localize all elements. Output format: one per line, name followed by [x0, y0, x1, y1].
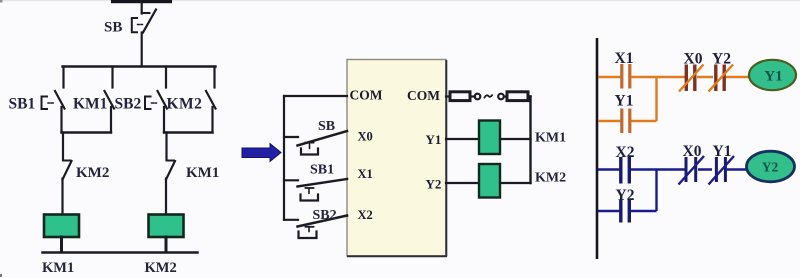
- wire below SB1: [60, 107, 62, 133]
- wire: [697, 76, 713, 79]
- svg-text:KM1: KM1: [535, 131, 566, 146]
- svg-text:COM: COM: [350, 88, 383, 103]
- wire to coil KM2: [165, 179, 167, 215]
- svg-text:SB: SB: [318, 119, 335, 134]
- wire drop branch 1: [62, 67, 64, 88]
- svg-text:SB1: SB1: [9, 96, 36, 113]
- wire coil2 to bus: [500, 182, 531, 184]
- contact Y2 (NO): [621, 200, 630, 223]
- svg-text:SB2: SB2: [115, 96, 142, 113]
- svg-text:X2: X2: [358, 208, 373, 222]
- svg-text:SB2: SB2: [313, 208, 337, 223]
- contact Y1 (NO): [622, 109, 630, 134]
- wire drop branch 3: [165, 67, 167, 88]
- wire parallel branch vertical: [655, 77, 657, 121]
- merge wire pair 1: [62, 131, 112, 133]
- svg-text:KM2: KM2: [76, 165, 109, 181]
- contact SB1 (NO pushbutton): [42, 91, 65, 109]
- wire coil KM2 to bottom rail: [165, 237, 168, 252]
- wire rung1: [598, 76, 621, 79]
- contact Y1 rung2 (NC): [709, 156, 735, 185]
- svg-text:Y1: Y1: [426, 132, 442, 147]
- svg-text:KM1: KM1: [73, 96, 107, 113]
- wire: [631, 168, 685, 171]
- coil Y2 ellipse: [747, 151, 795, 182]
- svg-text:KM2: KM2: [535, 171, 566, 186]
- wire to coil Y2: [727, 168, 751, 171]
- merge wire pair 2: [164, 131, 213, 133]
- wire coil to bus: [500, 138, 531, 140]
- svg-text:Y1: Y1: [713, 143, 732, 160]
- svg-text:Y1: Y1: [764, 69, 782, 85]
- pushbutton SB1 input X1: [284, 179, 347, 201]
- svg-text:SB1: SB1: [310, 163, 334, 178]
- wire from rail to SB: [141, 3, 143, 14]
- top rail wire: [63, 65, 216, 67]
- wire drop branch 4: [213, 67, 215, 88]
- wire Y2: [446, 182, 479, 184]
- svg-text:X1: X1: [358, 167, 373, 181]
- wire to coil Y1: [726, 76, 750, 79]
- wire branch vertical rung2: [655, 170, 657, 212]
- svg-text:Y2: Y2: [616, 187, 635, 204]
- wire branch2 down: [165, 133, 167, 161]
- svg-text:Y2: Y2: [712, 51, 731, 68]
- svg-text:Y2: Y2: [762, 160, 779, 175]
- wire SB to top rail: [141, 33, 143, 67]
- svg-text:COM: COM: [407, 88, 440, 103]
- svg-text:Y1: Y1: [615, 93, 634, 110]
- svg-text:SB: SB: [104, 20, 122, 36]
- svg-text:Y2: Y2: [426, 177, 442, 192]
- contact KM2 (NC): [63, 161, 72, 180]
- coil KM2 output: [479, 164, 500, 198]
- svg-text:KM2: KM2: [167, 96, 203, 113]
- svg-text:KM1: KM1: [42, 260, 74, 276]
- contact X0 rung2 (NC): [679, 156, 705, 185]
- rung 1 (orange): [598, 64, 750, 133]
- contact KM1 (NO): [105, 91, 115, 109]
- contact SB2 (NO pushbutton): [145, 91, 167, 109]
- wire parallel branch Y1: [598, 120, 621, 123]
- input bus wire: [283, 96, 285, 220]
- wire COM input: [284, 95, 347, 97]
- coil KM1 output: [479, 121, 500, 155]
- bottom rail wire: [43, 251, 198, 254]
- pushbutton SB input X0: [284, 131, 347, 155]
- svg-text:X2: X2: [616, 144, 635, 161]
- contact KM1 (NC): [166, 161, 175, 180]
- wire below KM1: [110, 107, 112, 133]
- svg-text:KM2: KM2: [145, 260, 177, 276]
- svg-text:X1: X1: [615, 50, 634, 67]
- power rail top bar: [111, 0, 172, 3]
- svg-text:X0: X0: [683, 143, 702, 160]
- rung 2 (navy): [598, 156, 751, 223]
- coil KM2: [149, 215, 184, 238]
- svg-text:X0: X0: [684, 51, 703, 68]
- power source symbol: [446, 92, 531, 101]
- contact KM2 (NO): [206, 91, 216, 109]
- wire: [631, 76, 685, 79]
- right bus wire: [529, 97, 531, 184]
- wire branch1 down: [62, 133, 64, 161]
- PLC box: [347, 60, 447, 257]
- wire Y1: [446, 138, 479, 140]
- coil Y1 ellipse: [749, 60, 796, 90]
- wire rung2: [598, 168, 620, 171]
- pushbutton SB (NC) contact: [132, 10, 156, 33]
- pushbutton SB2 input X2: [284, 216, 347, 239]
- wire parallel branch Y2: [598, 210, 620, 213]
- svg-text:KM1: KM1: [186, 165, 219, 181]
- wire: [698, 168, 712, 171]
- wire below SB2: [163, 107, 165, 133]
- wire drop branch 2: [111, 67, 113, 88]
- contact X2 (NO): [621, 157, 630, 184]
- contact X1 (NO): [622, 64, 630, 89]
- contact Y2 (NC): [709, 65, 734, 92]
- contact X0 (NC): [679, 65, 704, 92]
- ladder left rail: [596, 38, 599, 259]
- coil KM1: [44, 215, 79, 238]
- wire below KM2: [211, 107, 213, 133]
- wire to coil KM1: [61, 179, 63, 215]
- blue arrow: [242, 144, 281, 162]
- wire coil KM1 to bottom rail: [60, 237, 63, 252]
- svg-text:X0: X0: [358, 130, 373, 144]
